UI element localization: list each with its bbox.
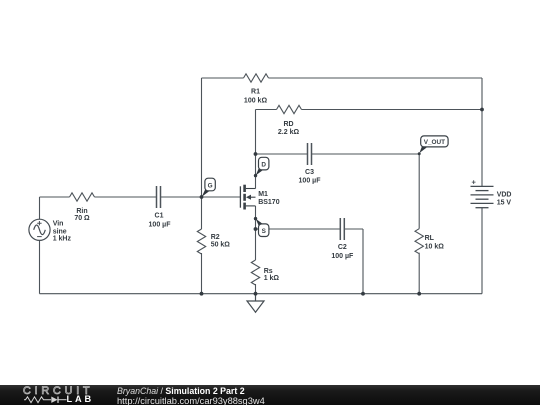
svg-text:Rin: Rin bbox=[76, 208, 87, 215]
svg-text:100 µF: 100 µF bbox=[331, 253, 354, 260]
node Rs-rail bbox=[254, 292, 258, 296]
wire RD left vertical bbox=[255, 110, 257, 155]
wire top row left bbox=[202, 77, 244, 79]
logo diode bbox=[51, 397, 57, 403]
CircuitLab logo bbox=[22, 385, 117, 405]
svg-text:C1: C1 bbox=[155, 213, 164, 220]
svg-text:VDD: VDD bbox=[497, 192, 512, 199]
credit text bbox=[116, 384, 118, 386]
svg-text:15 V: 15 V bbox=[497, 200, 512, 207]
wire drain vertical bbox=[255, 154, 257, 189]
svg-text:M1: M1 bbox=[258, 191, 268, 198]
svg-text:V_OUT: V_OUT bbox=[424, 139, 445, 146]
junction dots bbox=[200, 108, 484, 296]
capacitor C2 bbox=[340, 218, 344, 240]
resistor Rs bbox=[251, 260, 259, 285]
node V_OUT anchor bbox=[418, 152, 421, 155]
node flag V_OUT bbox=[419, 136, 448, 153]
node flag D bbox=[256, 157, 269, 175]
svg-text:10 kΩ: 10 kΩ bbox=[425, 243, 445, 250]
node C2-rail bbox=[361, 292, 365, 296]
resistor Rin bbox=[70, 193, 95, 201]
wire battery to rail bbox=[481, 208, 483, 294]
wire left vertical top (Vin to gate row) bbox=[39, 197, 41, 219]
wire C2 row left bbox=[256, 228, 340, 230]
svg-text:2.2 kΩ: 2.2 kΩ bbox=[278, 129, 300, 136]
svg-text:50 kΩ: 50 kΩ bbox=[211, 241, 231, 248]
svg-text:RD: RD bbox=[283, 121, 293, 128]
wire bottom rail bbox=[40, 293, 483, 295]
footer bar bbox=[0, 385, 540, 405]
svg-text:Vin: Vin bbox=[53, 220, 64, 227]
wire left vertical bottom (Vin to rail) bbox=[39, 241, 41, 294]
wire Rs to rail bbox=[255, 284, 257, 294]
svg-text:BS170: BS170 bbox=[258, 199, 280, 206]
svg-text:D: D bbox=[261, 161, 266, 168]
wire source vertical bbox=[255, 206, 257, 260]
node drain junction bbox=[254, 152, 258, 156]
wire Rin to C1 bbox=[95, 196, 157, 198]
node gate junction bbox=[200, 195, 204, 199]
svg-text:100 kΩ: 100 kΩ bbox=[244, 98, 268, 105]
capacitor C1 bbox=[157, 186, 161, 208]
svg-text:sine: sine bbox=[53, 228, 67, 235]
wire C2 column to rail bbox=[362, 229, 364, 294]
svg-text:Rs: Rs bbox=[264, 268, 273, 275]
wire C3 row right bbox=[312, 153, 419, 155]
node RL-rail bbox=[417, 292, 421, 296]
wire right column to battery bbox=[481, 78, 483, 186]
resistor R2 bbox=[197, 229, 205, 254]
wire C3 row left bbox=[256, 153, 308, 155]
wire C1 to gate node to M1 gate bbox=[161, 196, 240, 198]
logo waveform resistor bbox=[24, 397, 51, 403]
svg-text:G: G bbox=[208, 182, 213, 189]
svg-text:RL: RL bbox=[425, 235, 435, 242]
svg-text:+: + bbox=[472, 178, 477, 187]
node flag S bbox=[256, 219, 269, 237]
svg-text:C2: C2 bbox=[338, 244, 347, 251]
wire RD row right bbox=[302, 109, 483, 111]
transistor M1 (BS170 NMOS) bbox=[240, 185, 255, 210]
svg-text:1 kΩ: 1 kΩ bbox=[264, 275, 280, 282]
wire RL to rail bbox=[418, 253, 420, 294]
resistor RD bbox=[277, 105, 302, 113]
svg-text:70 Ω: 70 Ω bbox=[74, 215, 90, 222]
node flag G bbox=[202, 178, 215, 197]
svg-text:S: S bbox=[262, 228, 267, 235]
svg-text:C3: C3 bbox=[305, 169, 314, 176]
capacitor C3 bbox=[308, 143, 312, 165]
wire V_OUT column to RL bbox=[418, 154, 420, 229]
resistor R1 bbox=[244, 74, 269, 82]
wire gate column (top wire down through gate node to R2) bbox=[201, 78, 203, 229]
svg-text:100 µF: 100 µF bbox=[299, 178, 322, 185]
voltage source Vin bbox=[29, 219, 50, 240]
ground bbox=[247, 294, 264, 313]
node D anchor bbox=[254, 174, 257, 177]
node RD-VDD junction bbox=[480, 108, 484, 112]
node source junction bbox=[254, 227, 258, 231]
svg-text:R1: R1 bbox=[251, 88, 260, 95]
node S anchor bbox=[254, 217, 257, 220]
resistor RL bbox=[415, 229, 423, 254]
wire R2 to rail bbox=[201, 253, 203, 294]
wire C2 row right bbox=[345, 228, 363, 230]
node R2-rail bbox=[200, 292, 204, 296]
svg-text:1 kHz: 1 kHz bbox=[53, 236, 72, 243]
wire RD row left bbox=[256, 109, 277, 111]
wire top row right bbox=[269, 77, 483, 79]
battery VDD bbox=[471, 186, 494, 207]
svg-text:100 µF: 100 µF bbox=[149, 222, 172, 229]
wire gate row: source to Rin bbox=[40, 196, 70, 198]
svg-text:R2: R2 bbox=[211, 234, 220, 241]
